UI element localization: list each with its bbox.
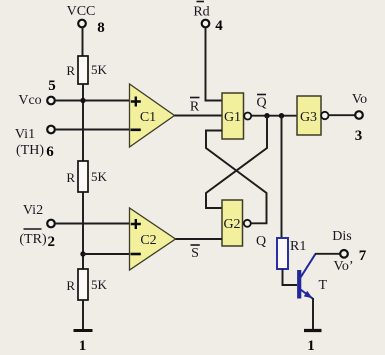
svg-text:Dis: Dis [332,229,351,244]
resistor R (middle 5K) [78,161,88,192]
node junction rail/C2 [80,251,85,256]
wire emitter to ground [312,298,314,330]
svg-text:5K: 5K [91,62,108,77]
gate G3 [297,96,321,135]
svg-text:R: R [66,63,75,78]
wire G3 to Vo [329,114,356,116]
svg-text:(TR): (TR) [19,232,47,247]
wire Vi1 to C1 - input [55,129,130,131]
svg-text:3: 3 [355,128,363,144]
svg-text:Vo’: Vo’ [334,259,354,274]
wire collector to Dis [315,253,340,255]
svg-text:4: 4 [215,18,223,34]
svg-text:Vi2: Vi2 [23,203,43,218]
svg-text:Rd: Rd [193,5,209,20]
svg-text:Q: Q [256,234,266,249]
overbar TR [24,228,42,230]
svg-text:VCC: VCC [67,4,96,19]
svg-text:G1: G1 [224,110,241,125]
pin 8 terminal VCC [78,20,86,28]
wire feedback Qbar to G2 input [206,116,267,208]
pin 3 terminal Vo [355,111,363,119]
svg-text:R: R [66,170,75,185]
svg-text:5K: 5K [91,277,108,292]
wire C2 output to G2 [176,238,223,240]
transistor T [299,254,315,299]
plus sign C1 [131,97,141,107]
svg-text:7: 7 [359,248,367,264]
wire feedback G2 output to G1 input [206,131,267,224]
svg-text:8: 8 [97,20,105,36]
wire Vco to C1 + input [55,100,130,102]
resistor R (bottom 5K) [78,269,88,300]
minus sign C2 [131,253,141,256]
svg-text:5K: 5K [91,169,108,184]
gate G2 [222,200,243,246]
svg-text:T: T [319,278,328,293]
gate G1 [222,93,244,139]
svg-text:R1: R1 [290,239,306,254]
svg-text:S: S [191,246,199,261]
pin 2 terminal Vi2 [47,220,55,228]
svg-text:R: R [66,278,75,293]
op-amp comparator C2 [130,208,176,270]
minus sign C1 [131,129,141,132]
svg-text:G2: G2 [223,217,240,232]
svg-text:C1: C1 [140,110,156,125]
G1 inversion bubble [244,113,251,120]
pin 7 terminal Dis [340,250,348,258]
wire Rd to G1 top input [206,28,223,101]
svg-text:C2: C2 [140,233,156,248]
G3 inversion bubble [321,112,328,119]
svg-text:5: 5 [48,78,56,94]
svg-text:Vi1: Vi1 [15,127,35,142]
G2 inversion bubble [244,220,251,227]
pin 6 terminal Vi1 [47,126,55,134]
ground right [304,329,322,332]
node junction rail/Vco [80,98,85,103]
node dot Qbar-R1 [279,113,284,118]
wire G1 output to G3 [251,115,297,117]
op-amp comparator C1 [130,84,175,147]
wire rail R1-R2 [82,84,84,161]
svg-text:G3: G3 [300,110,317,125]
svg-text:Q: Q [256,96,266,111]
plus sign C2 [131,219,141,229]
node dot Qbar-G2 feedback [264,113,269,118]
svg-text:(TH): (TH) [16,143,44,158]
svg-text:1: 1 [79,338,87,354]
wire VCC to R top [82,28,84,57]
pin 5 terminal Vco [47,97,55,105]
svg-text:Vco: Vco [18,93,41,108]
svg-text:R: R [190,100,200,115]
wire rail R2-R3 [82,192,84,269]
wire C1 output to G1 [175,115,223,117]
pin 4 terminal Rd [202,20,210,28]
svg-text:1: 1 [307,338,315,354]
transistor emitter arrow [304,291,313,299]
svg-text:6: 6 [46,144,54,160]
wire junction to C2 - input [83,253,130,255]
svg-text:Vo: Vo [352,92,367,107]
svg-text:2: 2 [48,234,56,250]
ground left [74,329,93,332]
wire Qbar node to R1 [281,116,283,238]
wire R1 to base [283,269,298,285]
wire Vi2 to C2 + input [55,223,130,225]
resistor R1 [277,238,288,269]
resistor R (top 5K) [78,56,88,84]
wire R3 to ground [82,300,84,330]
